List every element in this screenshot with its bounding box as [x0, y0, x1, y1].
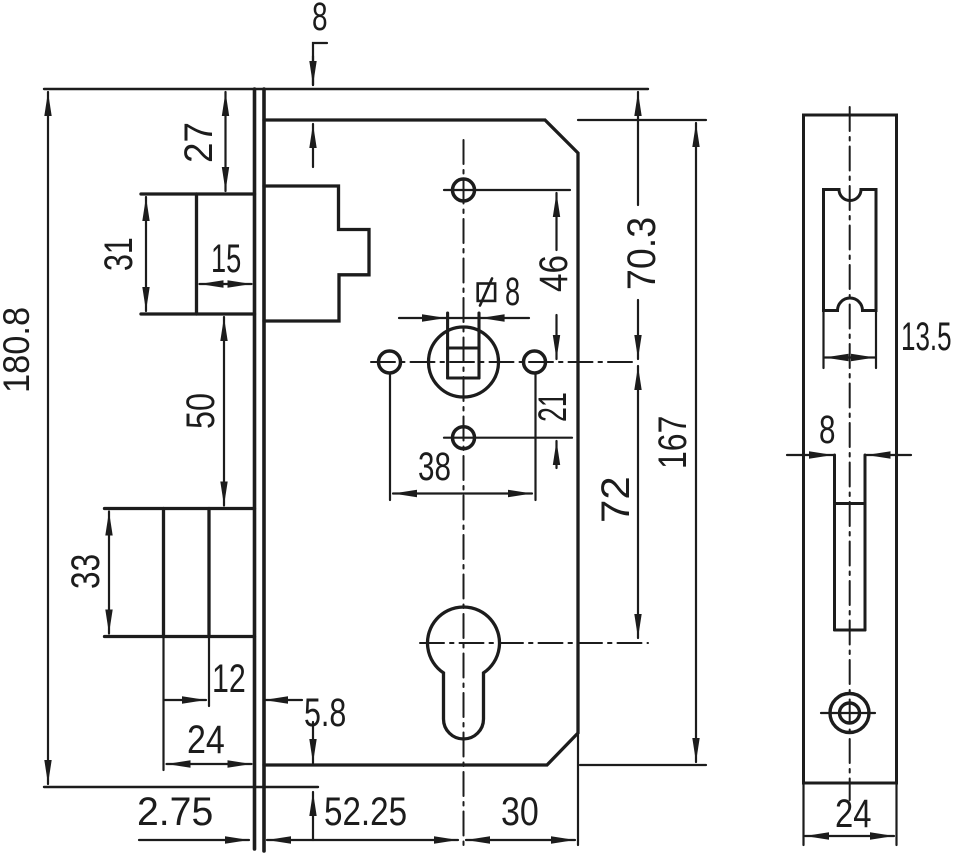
latch bolt: [264, 186, 369, 321]
dim 13.5 arrows: [825, 356, 851, 358]
svg-text:31: 31: [96, 237, 141, 271]
case right edge extension down: [577, 733, 579, 845]
svg-text:13.5: 13.5: [901, 314, 952, 359]
faceplate side view: [255, 89, 265, 851]
extension line right hole down: [534, 373, 536, 500]
svg-text:21: 21: [531, 392, 576, 422]
dim 33 line: [108, 512, 110, 634]
dim 46 line: [555, 193, 557, 250]
svg-text:33: 33: [62, 554, 107, 589]
dim 8 square arrows: [399, 317, 446, 319]
follower square hole: [448, 313, 479, 378]
svg-text:38: 38: [418, 445, 451, 489]
extension line block left edge down: [162, 637, 164, 771]
svg-text:24: 24: [187, 716, 225, 761]
svg-text:52.25: 52.25: [324, 789, 407, 834]
dim 72 line: [637, 366, 639, 638]
svg-text:2.75: 2.75: [137, 790, 213, 834]
cylinder axis horizontal: [420, 642, 648, 644]
euro profile cylinder hole: [427, 607, 499, 739]
screw hole cross line: [821, 712, 875, 714]
dim 24 arrows: [167, 763, 252, 765]
svg-text:27: 27: [177, 122, 222, 163]
right fixing hole: [524, 351, 546, 373]
dim 2.75 arrow: [139, 839, 249, 841]
svg-text:8: 8: [312, 0, 328, 39]
lower block (deadbolt housing): [105, 509, 255, 637]
top screw hole: [453, 179, 475, 201]
screw hole inner: [840, 703, 860, 723]
svg-text:180.8: 180.8: [0, 307, 37, 393]
extension line left hole down: [389, 373, 391, 500]
left fixing hole: [379, 351, 401, 373]
dim 167 line: [695, 123, 697, 762]
dim 24 arrows right view: [805, 835, 894, 837]
dim 180.8 line: [47, 92, 49, 784]
extension line lower hole right: [444, 437, 572, 439]
dim 8 slot line: [787, 454, 833, 456]
follower circle: [429, 327, 499, 397]
case bottom extension line: [580, 764, 706, 766]
holes: [379, 179, 546, 739]
cutout extension lines: [822, 311, 824, 369]
dim 12 arrows outside: [164, 699, 206, 701]
dim 38 line: [393, 492, 532, 494]
lower fixing hole: [453, 427, 475, 449]
svg-text:24: 24: [835, 791, 871, 836]
svg-text:50: 50: [178, 393, 223, 429]
case top extension line: [578, 119, 706, 121]
svg-text:72: 72: [593, 476, 638, 523]
svg-text:8: 8: [505, 270, 520, 314]
square symbol: [478, 279, 495, 306]
latch cutout: [824, 190, 877, 311]
faceplate front outline: [804, 115, 897, 783]
dim 5.8 arrows: [312, 722, 314, 763]
right view vertical axis: [849, 107, 851, 800]
svg-text:30: 30: [501, 788, 539, 833]
svg-text:46: 46: [531, 255, 576, 292]
svg-text:167: 167: [650, 416, 695, 469]
svg-text:12: 12: [212, 656, 246, 701]
dim 27 line: [224, 92, 226, 191]
faceplate top edge + extension line: [44, 88, 648, 90]
vertical axis left view: [463, 140, 465, 851]
extension line block divider down: [208, 637, 210, 707]
screw hole outer: [830, 694, 869, 733]
upper block (latch follower housing): [141, 194, 255, 314]
svg-text:15: 15: [211, 237, 241, 281]
plate extension lines bottom: [802, 783, 804, 845]
lock case outline: [264, 120, 578, 765]
svg-text:70.3: 70.3: [620, 217, 664, 290]
extension line top hole right: [444, 189, 570, 191]
dim 21 arrow: [555, 441, 557, 468]
dim 70.3 line: [637, 92, 639, 205]
dim 31 line: [145, 197, 147, 311]
svg-text:8: 8: [819, 408, 835, 452]
dim 8 top leader and arrows: [313, 43, 327, 85]
faceplate bottom edge + extension line: [44, 786, 318, 788]
follower axis horizontal: [371, 361, 638, 363]
dim 52.25 arrows: [267, 839, 458, 841]
dim 15 arrows: [200, 283, 252, 285]
svg-text:5.8: 5.8: [304, 690, 346, 735]
center lines: [371, 107, 850, 851]
dim 30 arrows: [466, 839, 575, 841]
dim 50 line: [223, 317, 225, 506]
deadbolt slot: [835, 455, 866, 630]
